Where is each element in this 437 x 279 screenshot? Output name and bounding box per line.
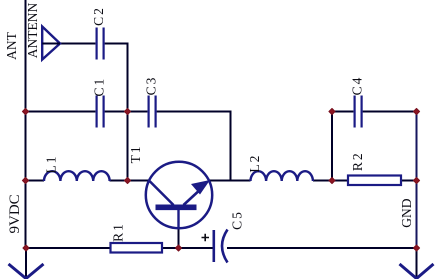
9VDC power arrow	[9, 264, 44, 279]
inductor L1	[44, 171, 110, 181]
wire right rail (GND rail)	[416, 112, 418, 249]
svg-text:ANT: ANT	[4, 31, 19, 59]
wire stem of GND arrow	[416, 248, 418, 277]
capacitor C2	[97, 28, 104, 60]
svg-text:R1: R1	[111, 222, 126, 242]
wire C5 to right rail	[227, 247, 417, 249]
svg-text:R2: R2	[350, 151, 365, 171]
label R1	[111, 222, 126, 242]
capacitor C1	[97, 96, 104, 128]
node R2 right / right rail	[414, 178, 420, 184]
label ANT	[4, 31, 19, 59]
capacitor C5 (electrolytic)	[214, 230, 228, 263]
label L2	[247, 154, 262, 173]
label C1	[92, 77, 107, 97]
transistor T1	[146, 162, 212, 229]
wire antenna to C2	[60, 43, 95, 45]
svg-text:C3: C3	[143, 76, 158, 96]
antenna symbol	[42, 27, 60, 60]
node 9VDC bottom rail	[23, 245, 29, 251]
label ANTENN	[25, 3, 40, 59]
resistor R1	[111, 243, 163, 253]
node GND bottom rail	[414, 245, 420, 251]
wire C1 to node B	[105, 111, 128, 113]
svg-text:T1: T1	[128, 144, 143, 163]
wire collector: transistor to L2	[209, 180, 251, 182]
wire base: node T1 to transistor	[128, 180, 150, 182]
resistor R2	[348, 176, 401, 186]
node L2 / R2 junction	[329, 178, 335, 184]
svg-text:C5: C5	[230, 210, 245, 230]
svg-text:C2: C2	[91, 6, 106, 26]
label C3	[143, 76, 158, 96]
label C2	[91, 6, 106, 26]
capacitor C3	[149, 96, 156, 128]
wire left rail (9VDC rail)	[25, 0, 27, 248]
wire C4 left	[332, 111, 353, 113]
node C4 left	[329, 109, 335, 115]
wire L2 to R2	[313, 180, 348, 182]
node T1 : L1 / base junction	[125, 178, 131, 184]
label C4	[349, 76, 364, 96]
capacitor C4	[355, 96, 362, 128]
label C5	[230, 210, 245, 230]
svg-text:ANTENN: ANTENN	[25, 3, 40, 59]
wire node B to C3	[128, 111, 148, 113]
wire left rail to L1	[26, 180, 45, 182]
wire left rail to C1	[26, 111, 96, 113]
svg-text:C1: C1	[92, 77, 107, 97]
wire L1 to node T1	[110, 180, 128, 182]
svg-text:9VDC: 9VDC	[7, 194, 23, 233]
svg-text:L2: L2	[247, 154, 262, 173]
label 9VDC	[7, 194, 23, 233]
wire node B down to node T1	[127, 112, 129, 181]
node emitter / R1 / C5	[176, 245, 182, 251]
wire C3 right with corner down to collector line	[157, 112, 231, 181]
wire emitter node to C5	[179, 247, 214, 249]
label L1	[44, 155, 59, 174]
wire bottom rail left to R1	[26, 247, 111, 249]
wire C4 right to rail	[363, 111, 417, 113]
svg-text:L1: L1	[44, 155, 59, 174]
label plus sign of C5	[202, 234, 210, 241]
node C4 right / right rail	[414, 109, 420, 115]
svg-text:C4: C4	[349, 76, 364, 96]
node left rail / C1	[23, 109, 29, 115]
wire R2 to right rail	[401, 180, 417, 182]
label T1	[128, 144, 143, 163]
label R2	[350, 151, 365, 171]
wire riser L2 node to C4 node	[331, 112, 333, 181]
node B : C1 C2 C3 junction	[125, 109, 131, 115]
label GND	[399, 198, 414, 227]
wire R1 to emitter node	[162, 247, 179, 249]
svg-text:GND: GND	[399, 198, 414, 227]
wire C2 to corner down to node B	[105, 44, 128, 111]
node left rail / L1	[23, 178, 29, 184]
GND power arrow	[400, 264, 434, 279]
wire transistor emitter down to bottom rail	[178, 228, 180, 248]
wire stem of 9VDC arrow	[25, 248, 27, 277]
inductor L2	[251, 171, 313, 181]
